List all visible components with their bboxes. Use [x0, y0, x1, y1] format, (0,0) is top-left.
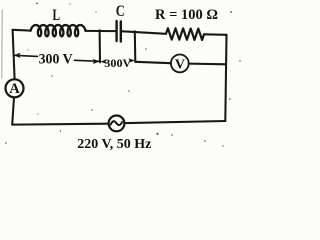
svg-text:300 V: 300 V: [39, 51, 73, 67]
svg-text:R = 100 Ω: R = 100 Ω: [155, 7, 218, 23]
svg-text:L: L: [53, 7, 61, 24]
svg-text:A: A: [9, 81, 20, 97]
svg-text:C: C: [116, 3, 125, 20]
svg-text:V: V: [175, 57, 185, 72]
svg-text:220 V, 50 Hz: 220 V, 50 Hz: [77, 137, 151, 152]
svg-text:300V: 300V: [104, 56, 131, 70]
